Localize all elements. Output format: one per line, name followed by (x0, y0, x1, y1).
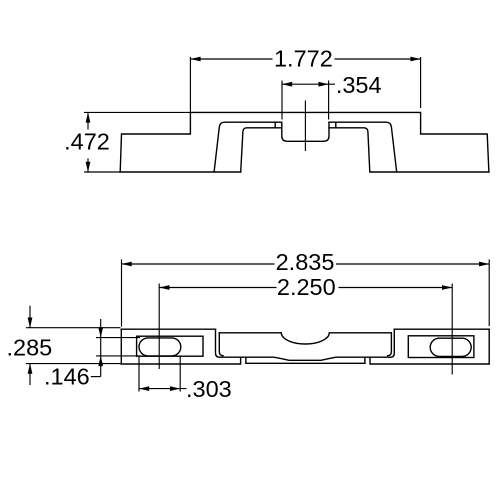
part top view: right ear divider (335, 122, 337, 128)
part bottom view: right edge (488, 329, 490, 364)
part bottom view: tray top edge with center cup recess (219, 333, 391, 344)
extension line .146 bottom (96, 355, 140, 357)
dimension line 1.772 (190, 58, 420, 60)
part bottom view: left leg footprint outer line (216, 329, 220, 357)
part bottom view: bottom edge left segment (121, 357, 240, 364)
part bottom view: top edge right segment (394, 328, 489, 330)
arrowhead .146 bottom (outside, pointing up) (98, 356, 103, 366)
arrowhead .285 top (outside, pointing down) (28, 318, 33, 328)
extension line 1.772 left (also part step edge) (189, 57, 191, 112)
part bottom view: right leg footprint outer line (390, 329, 394, 357)
part top view: right leg outer edge with fillet into plate underside line (329, 122, 397, 172)
part bottom view: right leg footprint inner line (388, 333, 392, 356)
part top view: right leg inner edge with fillet into lower underside line (329, 128, 370, 172)
dimension line .472 upper and lower segments (87, 112, 89, 172)
svg-text:2.835: 2.835 (276, 249, 335, 275)
part bottom view: right slot stadium (430, 338, 471, 356)
svg-text:.472: .472 (64, 128, 110, 154)
arrowhead .146 top (outside, pointing down) (98, 327, 103, 337)
leader .146 to text (91, 376, 101, 378)
extension line 2.250 left / left slot centerline (158, 284, 160, 370)
part bottom view: left slot pocket rectangle (137, 336, 203, 356)
extension line .303 left (138, 357, 140, 392)
part top view: left leg inner edge with fillet into lower underside line (241, 128, 282, 172)
arrowhead .472 top (86, 112, 91, 122)
svg-text:.354: .354 (336, 72, 382, 98)
part top view: left ear divider (274, 122, 276, 128)
part bottom view: left edge (120, 329, 122, 364)
arrowhead .303 right (170, 386, 180, 391)
part bottom view: center section bottom edge (246, 362, 365, 364)
part bottom view: top edge left segment (121, 328, 215, 330)
arrowhead 2.835 right (479, 262, 489, 267)
extension line .146 top (96, 337, 140, 339)
arrowhead 1.772 left (190, 57, 200, 62)
part bottom view: bottom edge right segment (370, 357, 489, 364)
svg-text:1.772: 1.772 (274, 46, 333, 72)
extension line .354 left (281, 81, 283, 120)
extension line .285 top (26, 327, 121, 329)
extension line .354 right (328, 81, 330, 120)
arrowhead 2.835 left (122, 262, 132, 267)
part top view: outer profile (left end, top edge, right end) (120, 112, 489, 172)
part top view: center channel U profile (282, 122, 329, 141)
extension line 1.772 right (420, 57, 422, 108)
dimension line .303 with leader to text (139, 388, 187, 390)
extension line .303 right (179, 357, 181, 392)
part bottom view: right slot pocket rectangle (408, 336, 474, 358)
part top view: bottom edge right segment (371, 171, 489, 173)
svg-text:.146: .146 (44, 364, 90, 390)
arrowhead .303 left (139, 386, 149, 391)
part bottom view: tray bottom edge with center sag (220, 357, 391, 360)
arrowhead 1.772 right (410, 57, 420, 62)
arrowhead .354 right (318, 82, 328, 87)
extension line 2.835 right (488, 260, 490, 327)
extension line .472 bottom (84, 171, 120, 173)
dimension line 2.835 (122, 263, 490, 265)
extension line 2.835 left (121, 260, 123, 327)
dimension line 2.250 (159, 287, 452, 289)
extension line .285 bottom (26, 363, 121, 365)
part bottom view: left slot stadium (139, 338, 181, 356)
dimension line .354 with leader to text (282, 83, 335, 85)
part top view: left leg outer edge with fillet into plate underside line (214, 122, 282, 172)
part bottom view: right bottom step ticks (364, 357, 366, 363)
part bottom view: left bottom step ticks (245, 357, 247, 363)
dimension line .285 upper and lower segments (29, 306, 31, 385)
channel centerline top view (304, 101, 306, 152)
svg-text:.285: .285 (7, 334, 53, 360)
extension line .472 top (collinear with part top edge) (84, 111, 190, 113)
svg-text:2.250: 2.250 (277, 274, 336, 300)
arrowhead 2.250 left (159, 285, 169, 290)
part bottom view: left leg footprint inner line (219, 333, 223, 356)
arrowhead .472 bottom (86, 162, 91, 172)
svg-text:.303: .303 (186, 376, 232, 402)
extension line 2.250 right / right slot centerline (451, 284, 453, 375)
part top view: bottom edge left segment (120, 171, 241, 173)
arrowhead .285 bottom (outside, pointing up) (28, 364, 33, 374)
arrowhead .354 left (282, 82, 292, 87)
arrowhead 2.250 right (442, 285, 452, 290)
dimension line .146 vertical (100, 319, 102, 377)
